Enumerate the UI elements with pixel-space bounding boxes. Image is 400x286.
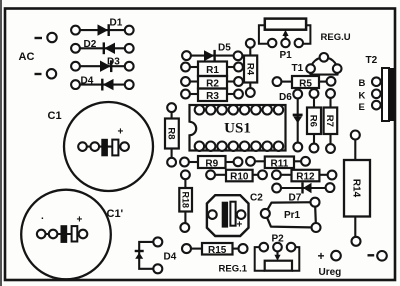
diode D4 (output) (135, 237, 177, 273)
diode D4 (71, 76, 133, 91)
svg-text:D4: D4 (81, 76, 94, 87)
svg-text:Pr1: Pr1 (284, 210, 301, 221)
resistor R9 (180, 156, 242, 170)
resistor R2 (181, 76, 243, 90)
diode D6 (279, 90, 303, 152)
svg-text:R5: R5 (299, 79, 312, 90)
diode D5 (182, 43, 242, 62)
transformer T2 (359, 55, 395, 121)
svg-text:.: . (41, 211, 44, 222)
resistor R18 (179, 170, 192, 232)
resistor R4 (244, 39, 257, 97)
node + Ureg (318, 249, 342, 278)
svg-text:+: + (237, 220, 243, 231)
svg-text:D1: D1 (110, 18, 123, 29)
svg-text:D6: D6 (279, 92, 292, 103)
svg-text:T1: T1 (292, 63, 304, 74)
svg-text:R7: R7 (324, 115, 335, 127)
resistor R11 (246, 157, 310, 170)
svg-text:B: B (359, 78, 366, 89)
node AC terminal 2 (35, 69, 57, 78)
potentiometer P2 (255, 234, 300, 271)
svg-text:R1: R1 (206, 65, 219, 76)
resistor R1 (181, 62, 243, 77)
resistor R15 (182, 243, 248, 256)
capacitor C1' (21, 190, 123, 280)
resistor R8 (165, 103, 179, 166)
resistor R12 (272, 170, 336, 183)
svg-text:+: + (77, 215, 83, 226)
svg-text:R15: R15 (208, 245, 227, 256)
svg-text:R3: R3 (206, 91, 219, 102)
svg-text:D4: D4 (164, 252, 177, 263)
svg-text:US1: US1 (224, 121, 251, 137)
diode D7 (272, 183, 334, 204)
svg-text:K: K (359, 90, 366, 101)
svg-text:R10: R10 (230, 172, 249, 183)
svg-text:+: + (118, 127, 124, 138)
svg-text:REG.U: REG.U (321, 32, 351, 43)
svg-text:R11: R11 (271, 158, 289, 169)
node - output (368, 251, 387, 261)
svg-text:E: E (359, 102, 365, 113)
resistor R10 (206, 170, 267, 183)
svg-text:D5: D5 (218, 43, 231, 54)
resistor R14 (344, 131, 370, 246)
svg-text:AC: AC (19, 51, 35, 63)
transistor T1 (292, 53, 342, 75)
resistor R5 (273, 76, 336, 90)
svg-text:+: + (318, 249, 325, 263)
svg-text:R8: R8 (166, 127, 177, 139)
diode D1 (71, 18, 133, 37)
svg-text:C1: C1 (48, 110, 62, 122)
capacitor C1 (48, 102, 154, 191)
svg-text:T2: T2 (366, 55, 378, 66)
svg-text:R9: R9 (205, 159, 218, 170)
resistor R6 (307, 89, 321, 152)
capacitor C2 (207, 193, 263, 237)
node AC terminal 1 (35, 33, 57, 42)
svg-text:R18: R18 (181, 191, 191, 208)
trimmer Pr1 (261, 198, 321, 232)
svg-text:D3: D3 (107, 57, 120, 68)
svg-text:Ureg: Ureg (319, 267, 342, 278)
op-amp U1 (IC US1) (187, 105, 286, 151)
diode D3 (71, 57, 133, 73)
svg-text:R14: R14 (350, 179, 361, 198)
svg-text:R12: R12 (296, 172, 315, 183)
svg-text:C1': C1' (107, 208, 124, 220)
resistor R3 (181, 89, 243, 103)
svg-text:R6: R6 (308, 115, 319, 127)
svg-text:D2: D2 (84, 39, 97, 50)
svg-text:REG.1: REG.1 (219, 264, 248, 275)
svg-text:P1: P1 (280, 50, 293, 61)
svg-text:C2: C2 (250, 193, 263, 204)
potentiometer P1 (259, 19, 311, 61)
diode D2 (71, 39, 133, 54)
resistor R7 (324, 89, 338, 153)
svg-text:R4: R4 (244, 63, 255, 76)
